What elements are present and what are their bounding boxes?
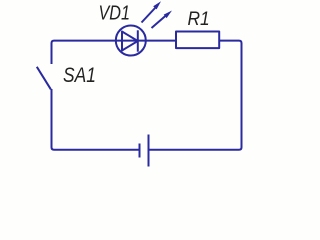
svg-text:SA1: SA1 [63, 63, 96, 87]
svg-text:VD1: VD1 [99, 2, 131, 24]
svg-text:R1: R1 [188, 7, 210, 29]
